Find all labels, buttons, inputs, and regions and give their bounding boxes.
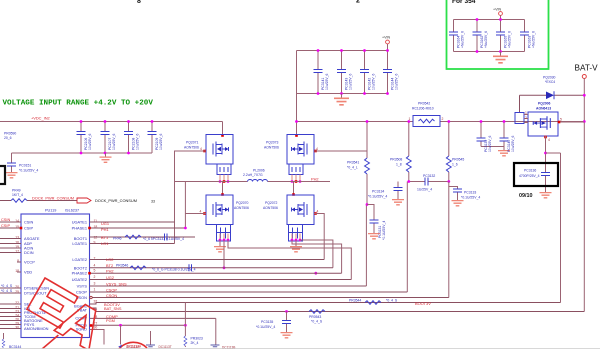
svg-text:PR0543: PR0543 [309,315,321,319]
svg-text:1: 1 [525,111,527,115]
svg-text:LGATE1: LGATE1 [72,241,87,246]
svg-text:1K/T_4: 1K/T_4 [12,193,23,197]
svg-text:5: 5 [94,269,96,273]
svg-text:4: 4 [200,147,202,151]
svg-text:PR0590: PR0590 [4,132,16,136]
svg-text:CSIN: CSIN [1,217,10,222]
svg-text:*0.1U/25V_4: *0.1U/25V_4 [19,169,38,173]
svg-text:PR3508: PR3508 [390,158,402,162]
svg-text:PR0545: PR0545 [452,158,464,162]
svg-text:PC3133: PC3133 [464,191,476,195]
svg-text:20_6: 20_6 [4,136,12,140]
svg-text:BAT-V: BAT-V [575,64,599,73]
svg-text:1_8: 1_8 [396,163,402,167]
svg-text:PR3023: PR3023 [191,337,203,341]
svg-text:10u/25V_6: 10u/25V_6 [488,135,492,152]
svg-text:PR46: PR46 [113,236,122,240]
svg-text:DC1113T: DC1113T [159,345,172,349]
svg-text:*0_4_S: *0_4_S [1,289,13,293]
svg-text:PGM: PGM [106,318,115,323]
svg-text:1: 1 [94,288,96,292]
svg-text:PQ2030: PQ2030 [543,76,556,80]
svg-text:PQ2006: PQ2006 [538,102,551,106]
svg-text:PQ2070: PQ2070 [236,201,249,205]
svg-text:PR3544: PR3544 [349,299,361,303]
svg-text:CSOP: CSOP [106,287,117,292]
svg-text:4700P/25V_4: 4700P/25V_4 [519,174,540,178]
svg-text:AON7506: AON7506 [264,146,279,150]
svg-text:PL2006: PL2006 [253,169,265,173]
svg-text:PR0542: PR0542 [418,102,430,106]
svg-text:*0_4_L: *0_4_L [347,166,358,170]
svg-text:*0.1U/25V_4: *0.1U/25V_4 [256,325,275,329]
svg-text:ISL6237: ISL6237 [65,209,79,213]
svg-text:AON6413: AON6413 [536,107,551,111]
svg-text:PC3136: PC3136 [524,169,536,173]
svg-text:*0_4_S: *0_4_S [311,320,323,324]
svg-text:10u/25V_6: 10u/25V_6 [136,133,140,150]
svg-text:1_6: 1_6 [452,163,458,167]
svg-text:+Nu/25V_6: +Nu/25V_6 [484,31,488,48]
svg-text:BOOT2: BOOT2 [74,265,87,270]
svg-text:8: 8 [137,0,141,5]
svg-text:10u/25V_6: 10u/25V_6 [88,133,92,150]
svg-text:10u/25V_6: 10u/25V_6 [395,73,399,90]
svg-text:*0.1U/25V_4: *0.1U/25V_4 [382,221,386,240]
svg-text:10u/25V_6: 10u/25V_6 [159,133,163,150]
svg-text:PC3132: PC3132 [423,174,435,178]
svg-text:PC3135: PC3135 [261,320,273,324]
svg-text:3: 3 [94,282,96,286]
svg-text:4: 4 [548,138,550,142]
svg-text:PH1: PH1 [101,227,109,232]
svg-text:CSIP: CSIP [1,223,10,228]
svg-text:AON7506: AON7506 [263,206,278,210]
svg-text:09/10: 09/10 [519,193,533,199]
svg-text:10u/25V_6: 10u/25V_6 [349,73,353,90]
svg-text:PU119: PU119 [45,209,56,213]
svg-text:2K_4: 2K_4 [191,341,199,345]
svg-text:*0_4_S: *0_4_S [1,284,13,288]
svg-text:PR3541: PR3541 [347,161,359,165]
svg-text:4: 4 [200,210,202,214]
svg-text:2.2uH_7X7G: 2.2uH_7X7G [243,173,263,177]
svg-text:LG1: LG1 [101,241,108,246]
svg-text:+VDC_IN2: +VDC_IN2 [31,116,50,121]
svg-text:VSYS: VSYS [77,284,88,289]
svg-text:VDD: VDD [24,270,32,275]
svg-text:*0_4_S: *0_4_S [386,299,398,303]
svg-text:UGATE1: UGATE1 [72,220,87,225]
svg-text:2: 2 [94,275,96,279]
svg-text:+Nu/25V_6: +Nu/25V_6 [532,31,536,48]
svg-text:For 354: For 354 [452,0,476,5]
svg-text:PR3546: PR3546 [116,264,128,268]
svg-text:33: 33 [151,200,155,204]
svg-text:AMON/BMON: AMON/BMON [24,326,49,331]
svg-text:CSOP: CSOP [76,290,87,295]
svg-text:PQ2071: PQ2071 [186,141,199,145]
svg-text:PQ2072: PQ2072 [265,201,278,205]
svg-text:10u/25V_6: 10u/25V_6 [511,135,515,152]
svg-text:2: 2 [442,117,444,121]
svg-text:PC3134: PC3134 [372,190,384,194]
svg-text:RC1206-R010: RC1206-R010 [412,107,434,111]
svg-text:LG2: LG2 [106,257,113,262]
svg-text:*0_6 5PC3137 0.1U/25V_4: *0_6 5PC3137 0.1U/25V_4 [143,237,184,241]
svg-text:CSON: CSON [106,293,117,298]
svg-text:BT2: BT2 [106,263,113,268]
svg-text:PHASE2: PHASE2 [72,271,87,276]
svg-text:DOCK_PWR_CONSUM: DOCK_PWR_CONSUM [95,198,137,203]
svg-text:*EXC4: *EXC4 [545,80,555,84]
svg-text:AON7506: AON7506 [184,146,199,150]
svg-text:30: 30 [94,326,98,330]
svg-text:PQ2073: PQ2073 [266,141,279,145]
svg-text:+VIN: +VIN [493,8,501,12]
svg-text:AON7506: AON7506 [234,206,249,210]
svg-text:2: 2 [356,0,360,5]
svg-text:DOCK_PWR_CONSUM: DOCK_PWR_CONSUM [32,195,74,200]
svg-text:PH2: PH2 [106,269,114,274]
svg-text:LGATE2: LGATE2 [72,257,87,262]
svg-text:PC0151: PC0151 [19,164,31,168]
svg-text:*0.1U/25V_4: *0.1U/25V_4 [461,196,480,200]
svg-text:+VIN: +VIN [382,36,390,40]
svg-text:BOOT3V: BOOT3V [415,301,431,306]
svg-text:BAT_SNS: BAT_SNS [104,306,122,311]
svg-text:UGATE2: UGATE2 [72,277,87,282]
svg-text:4: 4 [94,263,96,267]
svg-text:+Nu/25V_6: +Nu/25V_6 [461,31,465,48]
svg-text:2: 2 [525,116,527,120]
svg-text:1U/25V_4: 1U/25V_4 [417,188,432,192]
svg-text:10u/25V_6: 10u/25V_6 [112,133,116,150]
svg-text:10u/25V_6: 10u/25V_6 [325,73,329,90]
svg-text:VSYS_SNS: VSYS_SNS [106,281,127,286]
svg-text:DCIN: DCIN [24,250,34,255]
svg-text:UG1: UG1 [101,221,109,226]
svg-text:10u/25V_6: 10u/25V_6 [372,73,376,90]
svg-text:*0.1U/25V_4: *0.1U/25V_4 [368,195,387,199]
svg-text:PR49: PR49 [12,189,21,193]
svg-text:VCCP: VCCP [24,260,35,265]
svg-text:CSIP: CSIP [24,226,33,231]
svg-text:PH2: PH2 [311,177,319,182]
svg-text:BT1: BT1 [101,235,108,240]
svg-text:DC1113A: DC1113A [127,345,142,349]
svg-text:CSIN: CSIN [24,220,33,225]
svg-text:UG2: UG2 [106,275,114,280]
svg-text:PHASE1: PHASE1 [72,226,87,231]
svg-text:VOLTAGE INPUT RANGE +4.2V TO +: VOLTAGE INPUT RANGE +4.2V TO +20V [3,100,154,108]
svg-text:+Nu/25V_6: +Nu/25V_6 [508,31,512,48]
